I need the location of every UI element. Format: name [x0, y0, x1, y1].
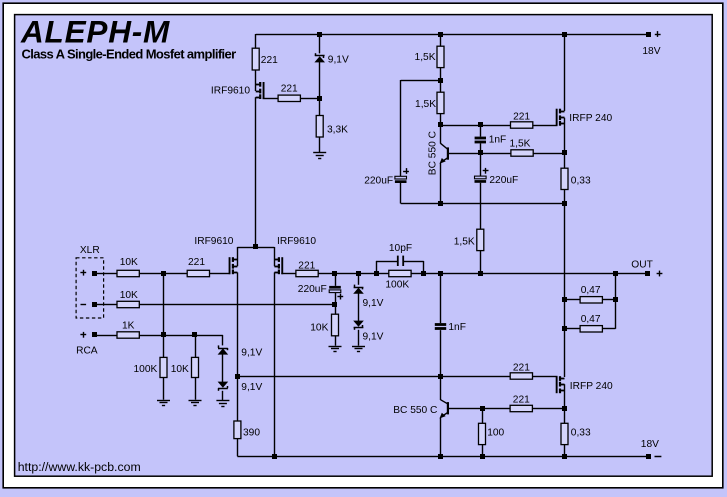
svg-text:IRF9610: IRF9610 [211, 86, 250, 97]
svg-text:221: 221 [281, 84, 298, 95]
svg-text:0,47: 0,47 [581, 285, 601, 296]
svg-text:221: 221 [261, 55, 278, 66]
svg-text:9,1V: 9,1V [241, 348, 262, 359]
svg-text:220uF: 220uF [298, 284, 327, 295]
svg-text:9,1V: 9,1V [363, 298, 384, 309]
svg-text:1K: 1K [122, 321, 135, 332]
svg-text:ALEPH-M: ALEPH-M [20, 14, 170, 50]
svg-text:1,5K: 1,5K [454, 237, 475, 248]
svg-text:0,33: 0,33 [571, 176, 591, 187]
svg-text:10K: 10K [171, 364, 189, 375]
svg-text:Class A Single-Ended Mosfet am: Class A Single-Ended Mosfet amplifier [22, 47, 237, 62]
svg-text:10K: 10K [310, 323, 328, 334]
svg-text:100K: 100K [385, 280, 409, 291]
svg-text:221: 221 [298, 260, 315, 271]
svg-text:100K: 100K [134, 364, 158, 375]
svg-text:9,1V: 9,1V [241, 382, 262, 393]
svg-text:IRFP 240: IRFP 240 [570, 381, 613, 392]
svg-text:IRF9610: IRF9610 [194, 236, 233, 247]
svg-text:IRFP 240: IRFP 240 [569, 113, 612, 124]
svg-text:221: 221 [513, 112, 530, 123]
svg-text:10K: 10K [120, 290, 138, 301]
svg-text:9,1V: 9,1V [328, 55, 349, 66]
svg-text:BC 550 C: BC 550 C [428, 131, 439, 175]
svg-text:100: 100 [487, 428, 504, 439]
svg-text:0,33: 0,33 [571, 428, 591, 439]
svg-text:BC 550 C: BC 550 C [393, 405, 437, 416]
svg-text:IRF9610: IRF9610 [277, 236, 316, 247]
svg-text:220uF: 220uF [364, 176, 393, 187]
svg-text:18V: 18V [642, 46, 660, 57]
svg-text:10K: 10K [120, 257, 138, 268]
svg-text:390: 390 [243, 428, 260, 439]
svg-text:XLR: XLR [80, 245, 100, 256]
svg-text:221: 221 [188, 257, 205, 268]
svg-text:RCA: RCA [76, 346, 98, 357]
svg-text:9,1V: 9,1V [363, 332, 384, 343]
svg-text:OUT: OUT [631, 260, 653, 271]
svg-text:3,3K: 3,3K [327, 125, 348, 136]
svg-text:1,5K: 1,5K [415, 52, 436, 63]
svg-text:221: 221 [513, 395, 530, 406]
svg-text:220uF: 220uF [489, 175, 518, 186]
svg-text:1nF: 1nF [489, 135, 507, 146]
svg-text:18V: 18V [641, 439, 659, 450]
svg-text:1,5K: 1,5K [415, 99, 436, 110]
svg-text:1,5K: 1,5K [510, 139, 531, 150]
svg-text:http://www.kk-pcb.com: http://www.kk-pcb.com [18, 460, 141, 474]
svg-text:10pF: 10pF [389, 243, 412, 254]
svg-text:1nF: 1nF [448, 322, 466, 333]
svg-text:221: 221 [513, 363, 530, 374]
svg-text:0,47: 0,47 [581, 314, 601, 325]
